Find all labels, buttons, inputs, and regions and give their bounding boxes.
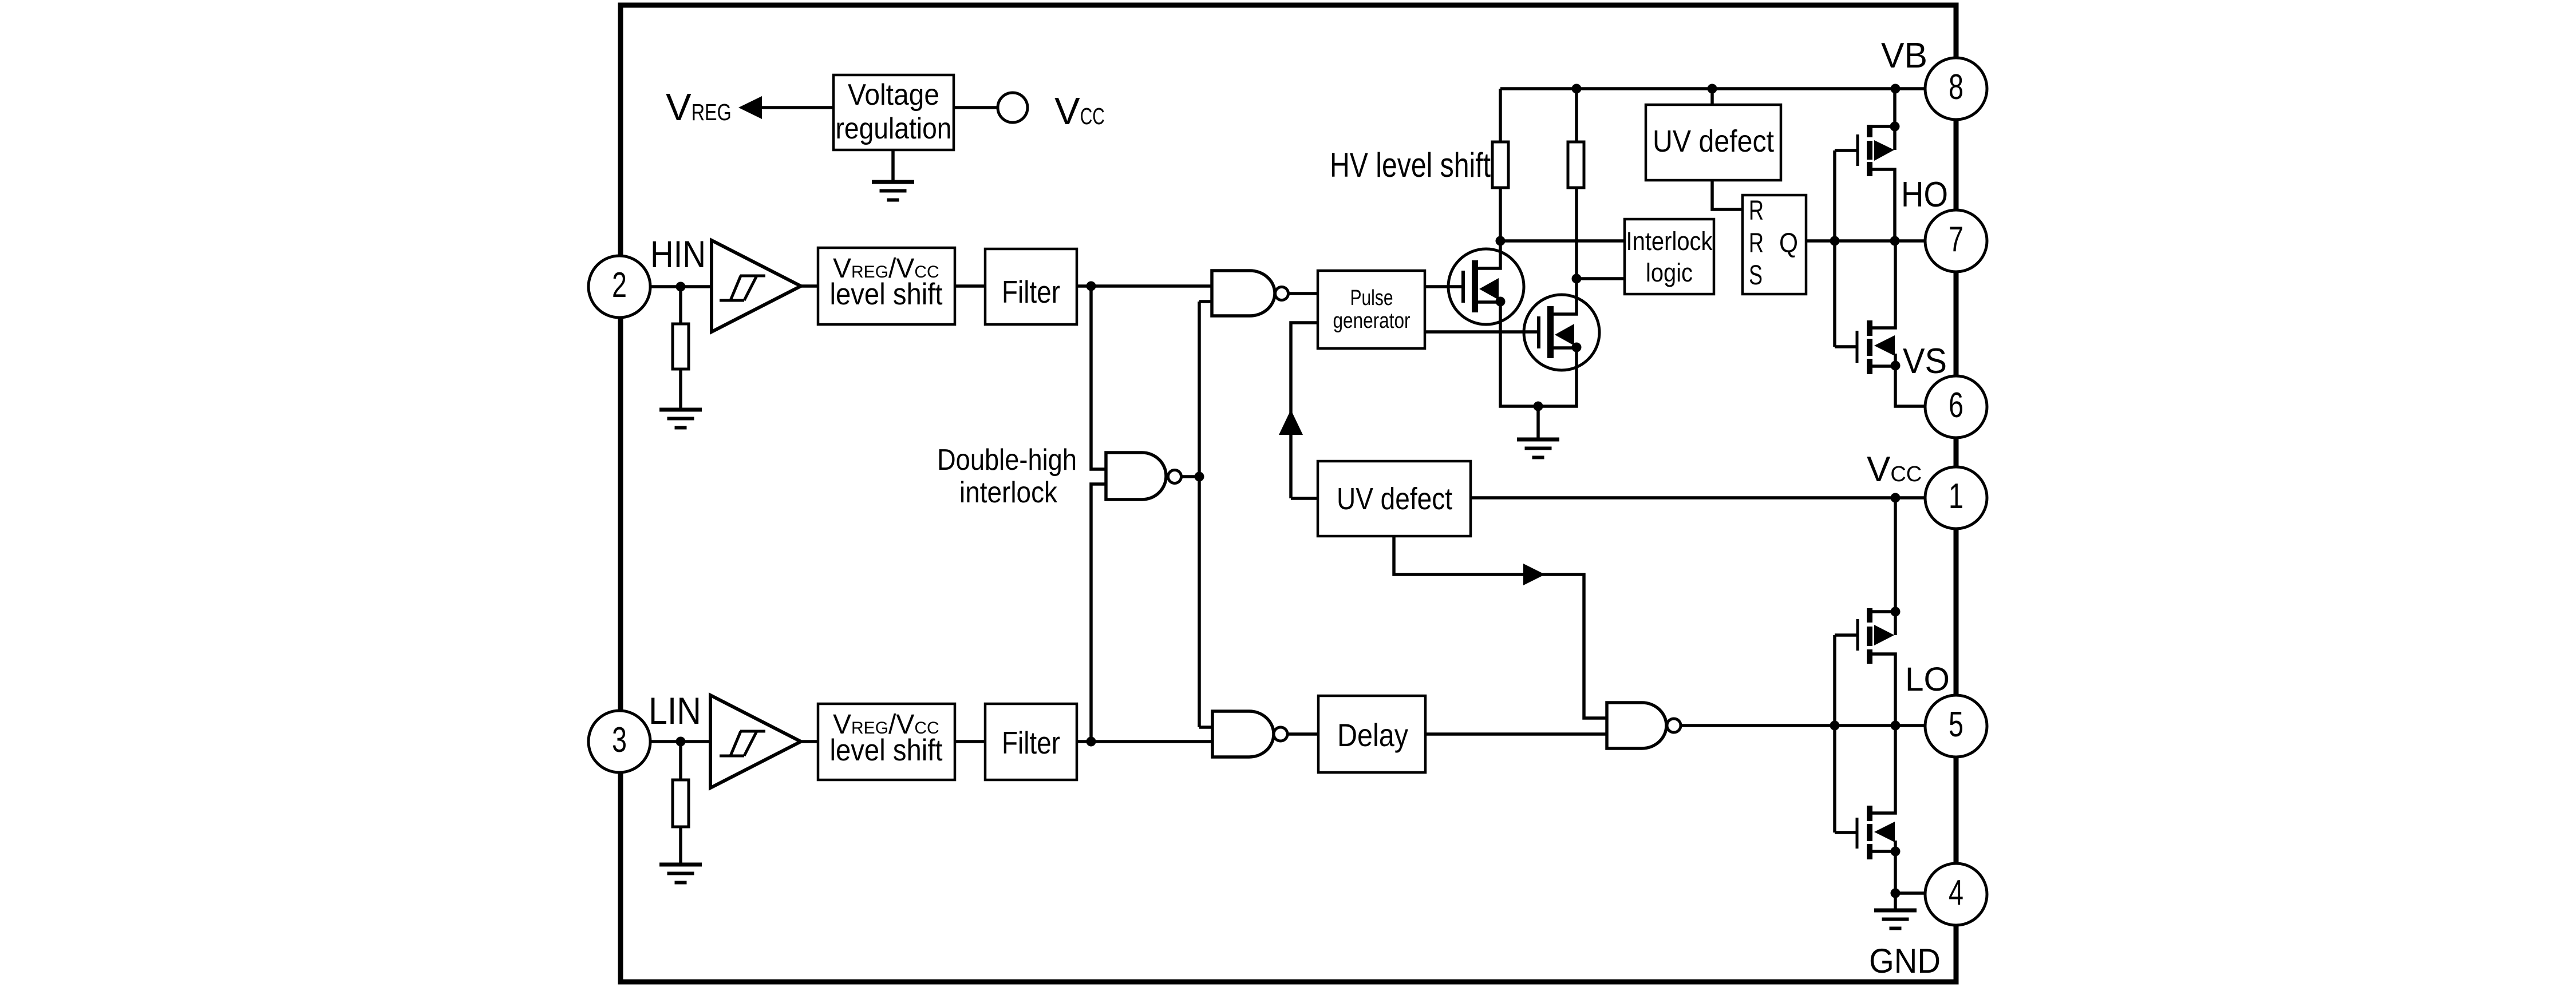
svg-text:HV level shift: HV level shift xyxy=(1330,146,1491,184)
NAND gate G1 high side xyxy=(1212,271,1275,316)
svg-text:LIN: LIN xyxy=(649,689,701,732)
wire LO source to pin 4 xyxy=(1895,891,1925,895)
wire schmitt LIN out xyxy=(801,740,818,743)
wire pulse generator out 1 to Q-HV1 gate xyxy=(1425,285,1463,288)
pin 5 LO xyxy=(1925,695,1987,757)
ground HIN pulldown xyxy=(659,408,702,430)
ground below voltage regulation xyxy=(872,180,914,202)
svg-text:UV defect: UV defect xyxy=(1653,124,1774,158)
wire interlock NAND output xyxy=(1182,475,1199,478)
svg-text:Double-high: Double-high xyxy=(937,443,1077,477)
junction VB rail at Q1 drain xyxy=(1891,84,1901,94)
wire LIN resistor to ground xyxy=(679,827,682,863)
resistor R1 HV level shift body xyxy=(1492,142,1508,188)
pin 4 GND xyxy=(1925,863,1987,925)
junction HV FET ground node xyxy=(1534,402,1543,411)
svg-text:Q: Q xyxy=(1779,228,1798,259)
transistor Q-HV2 circled MOSFET xyxy=(1524,295,1599,370)
ground LIN pulldown xyxy=(659,863,702,885)
box UV defect 1 xyxy=(1646,105,1781,180)
svg-text:regulation: regulation xyxy=(836,112,952,145)
svg-text:VB: VB xyxy=(1881,36,1927,76)
schmitt trigger buffer LIN xyxy=(710,695,801,788)
wire jog to NAND G1 lower input xyxy=(1199,300,1212,303)
svg-text:level shift: level shift xyxy=(830,278,943,311)
VREG arrowhead xyxy=(738,96,762,119)
svg-text:Voltage: Voltage xyxy=(848,78,939,112)
box VREG/VCC level shift 1 xyxy=(818,248,955,324)
transistor Q-HV1 circled MOSFET xyxy=(1448,249,1524,324)
svg-text:4: 4 xyxy=(1949,873,1963,913)
junction VB rail at R2 xyxy=(1572,84,1582,94)
wire delay output to NAND G4 xyxy=(1425,732,1607,736)
junction VCC node xyxy=(1891,493,1901,503)
wire R2 bottom to node B xyxy=(1575,188,1578,279)
transistor Q1 high-side upper driver xyxy=(1833,150,1836,347)
wire R2 top lead xyxy=(1575,89,1578,142)
wire HV rail from R1 to pin 8 xyxy=(1500,87,1925,90)
junction Q output at gate column xyxy=(1830,236,1840,246)
box filter 2 xyxy=(985,704,1077,780)
svg-text:logic: logic xyxy=(1646,258,1693,287)
junction GND node xyxy=(1891,889,1901,898)
svg-text:2: 2 xyxy=(612,265,627,305)
svg-text:1: 1 xyxy=(1949,477,1963,516)
junction Q2 source body xyxy=(1891,361,1901,371)
svg-text:level shift: level shift xyxy=(830,734,943,767)
box pulse generator xyxy=(1318,271,1425,348)
box voltage regulation xyxy=(833,75,954,150)
junction LO node xyxy=(1891,721,1901,731)
wire level shift 2 to filter 2 xyxy=(955,740,985,743)
svg-text:R: R xyxy=(1749,228,1764,259)
wire HIN resistor to ground xyxy=(679,369,682,408)
IC outline border xyxy=(621,5,1956,982)
pin 8 VB xyxy=(1925,58,1987,120)
wire VREG arrow lead xyxy=(762,106,833,109)
arrowhead up on feedback wire xyxy=(1279,410,1303,435)
ground HV level shift FETs xyxy=(1517,438,1559,459)
pin 7 HO xyxy=(1925,210,1987,272)
box delay xyxy=(1318,696,1425,772)
wire UV defect 1 output to latch R xyxy=(1712,180,1743,209)
junction HO node xyxy=(1890,236,1900,246)
resistor R-LIN body xyxy=(673,780,689,827)
transistor Q4 low-side lower driver xyxy=(1835,831,1856,834)
wire node B to interlock logic input 2 xyxy=(1577,277,1625,280)
arrowhead right on UV defect 2 output xyxy=(1523,564,1545,585)
wire common source rail of HV FETs xyxy=(1500,302,1577,406)
wire LIN bus up to interlock NAND bottom input xyxy=(1091,484,1106,742)
box VREG/VCC level shift 2 xyxy=(818,704,955,780)
svg-text:Interlock: Interlock xyxy=(1626,227,1713,256)
svg-text:S: S xyxy=(1749,260,1763,291)
wire node A to interlock logic input 1 xyxy=(1500,239,1625,243)
wire level shift 1 to filter 1 xyxy=(955,284,985,288)
junction Q3 drain xyxy=(1891,607,1901,617)
svg-text:Delay: Delay xyxy=(1337,717,1408,753)
svg-text:VS: VS xyxy=(1903,342,1947,381)
junction interlock NAND output node xyxy=(1195,472,1204,482)
wire filter 1 to NAND G1 xyxy=(1077,284,1212,288)
junction Q-HV2 source xyxy=(1572,343,1582,352)
wire HV FET source ground stem xyxy=(1536,406,1540,438)
svg-text:8: 8 xyxy=(1949,68,1963,107)
VCC terminal circle xyxy=(998,93,1028,122)
wire latch Q output to HO node xyxy=(1806,239,1925,243)
svg-text:6: 6 xyxy=(1949,386,1963,425)
junction Q-HV1 source xyxy=(1496,297,1506,307)
wire NAND G1 output to pulse generator xyxy=(1289,292,1318,295)
schmitt trigger buffer HIN xyxy=(712,240,801,332)
junction LO gate column xyxy=(1830,721,1840,731)
box interlock logic xyxy=(1625,219,1714,294)
junction Q4 source body xyxy=(1891,847,1901,857)
pin 2 HIN xyxy=(588,256,650,318)
wire HIN pulldown resistor top xyxy=(679,287,682,324)
svg-text:7: 7 xyxy=(1949,220,1963,259)
wire UV defect 2 feedback to pulse generator xyxy=(1291,323,1318,498)
ground GND pin stem xyxy=(1874,909,1917,930)
wire HIN bus down to interlock NAND top input xyxy=(1091,286,1106,469)
wire LIN pin3 to schmitt xyxy=(650,740,710,743)
wire R1 bottom to node A xyxy=(1499,188,1502,241)
svg-text:HO: HO xyxy=(1901,175,1948,215)
wire UV defect 2 down and right to NAND G4 xyxy=(1394,536,1607,718)
wire interlock output bus vertical xyxy=(1198,302,1201,727)
wire NAND G3 output to delay xyxy=(1287,732,1318,736)
junction node B R2 bottom xyxy=(1572,274,1582,284)
wire schmitt HIN out xyxy=(801,284,818,288)
wire pulse generator out 2 to Q-HV2 gate xyxy=(1425,330,1539,334)
svg-text:Pulse: Pulse xyxy=(1350,286,1393,310)
wire Voltage regulation ground stem xyxy=(891,150,895,180)
NAND gate G4 low side driver xyxy=(1607,703,1666,748)
junction filter 1 output node xyxy=(1086,282,1096,291)
pin 1 VCC xyxy=(1925,467,1987,529)
wire UV defect 2 output to VCC pin 1 xyxy=(1471,496,1925,500)
svg-text:HIN: HIN xyxy=(650,233,706,275)
wire NAND G4 output to LO gates xyxy=(1681,724,1925,727)
svg-text:Filter: Filter xyxy=(1002,274,1060,310)
wire R1 top lead xyxy=(1499,89,1502,142)
NAND gate G3 low side input xyxy=(1212,711,1274,757)
junction node A R1 bottom xyxy=(1496,236,1506,246)
svg-text:LO: LO xyxy=(1905,661,1950,698)
svg-text:5: 5 xyxy=(1949,705,1963,744)
transistor Q2 high-side lower driver xyxy=(1835,345,1856,348)
wire LIN pulldown resistor top xyxy=(679,742,682,780)
junction LIN input node xyxy=(676,737,686,747)
svg-text:UV defect: UV defect xyxy=(1337,482,1452,516)
pin 3 LIN xyxy=(588,711,650,772)
junction VB rail at UV defect xyxy=(1708,84,1717,94)
junction Q1 drain lead xyxy=(1890,122,1900,132)
wire HIN pin2 to schmitt xyxy=(650,285,712,288)
wire Voltage regulation to VCC terminal xyxy=(954,106,998,109)
svg-text:generator: generator xyxy=(1333,309,1411,333)
box UV defect 2 xyxy=(1318,461,1471,536)
box SR latch U2 xyxy=(1743,195,1806,294)
svg-text:Filter: Filter xyxy=(1002,725,1060,760)
junction filter 2 output node xyxy=(1086,737,1096,747)
svg-text:GND: GND xyxy=(1869,942,1941,980)
box filter 1 xyxy=(985,249,1077,324)
svg-text:3: 3 xyxy=(612,720,627,760)
wire VB rail stem to UV defect 1 xyxy=(1710,89,1714,105)
transistor Q3 low-side upper driver xyxy=(1833,635,1836,833)
resistor R2 HV level shift body xyxy=(1568,142,1584,188)
svg-text:interlock: interlock xyxy=(959,476,1058,509)
svg-text:R: R xyxy=(1749,196,1764,226)
pin 6 VS xyxy=(1925,376,1987,438)
NAND gate G2 double-high interlock xyxy=(1106,453,1166,500)
wire filter 2 to NAND G3 xyxy=(1077,740,1212,743)
resistor R-HIN body xyxy=(673,324,689,369)
junction HIN input node xyxy=(676,282,686,292)
wire jog to NAND G3 upper input xyxy=(1199,726,1212,729)
